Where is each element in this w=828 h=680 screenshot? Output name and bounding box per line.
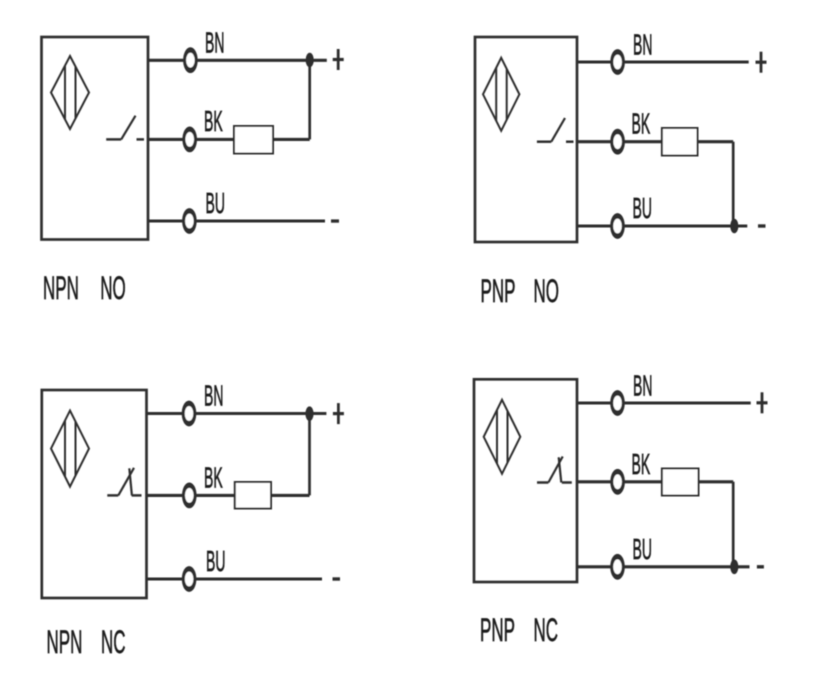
svg-text:BK: BK (204, 104, 223, 137)
resistor Q4 (662, 469, 699, 496)
sensor box Q3 (42, 390, 147, 598)
NO switch contact Q1 (106, 116, 144, 140)
terminal circle BN Q3 (182, 401, 197, 427)
plus terminal Q4 (757, 392, 768, 413)
junction dot BU Q2 (730, 219, 738, 234)
wire BU Q2 (577, 224, 747, 227)
plus terminal Q2 (756, 52, 767, 73)
NC switch contact Q4 (537, 457, 572, 483)
junction dot Q3 (305, 406, 313, 421)
sensor box Q2 (475, 37, 577, 242)
terminal circle BU Q3 (182, 566, 197, 592)
wire BK Q3 (147, 494, 310, 497)
sensor diamond symbol Q1 (51, 56, 89, 129)
svg-text:NC: NC (101, 623, 126, 661)
terminal circle BK Q1 (182, 126, 197, 152)
resistor Q1 (234, 126, 273, 154)
vertical wire resistor to BU Q4 (732, 482, 735, 567)
sensor diamond symbol Q3 (51, 411, 89, 487)
terminal circle BN Q4 (610, 390, 625, 416)
svg-text:NO: NO (534, 272, 559, 310)
sensor diamond symbol Q4 (484, 400, 521, 474)
terminal circle BU Q2 (610, 213, 625, 239)
sensor box Q4 (474, 379, 577, 582)
plus terminal Q3 (333, 403, 344, 424)
caption NPN NO (43, 269, 126, 307)
vertical wire BN to resistor Q3 (308, 414, 311, 496)
terminal circle BU Q4 (610, 554, 625, 580)
minus terminal Q3 (333, 577, 341, 580)
caption NPN NC (47, 623, 126, 661)
wire BU Q1 (148, 219, 325, 222)
wire BN Q4 (577, 401, 751, 404)
svg-text:NPN: NPN (47, 623, 83, 661)
terminal circle BK Q4 (610, 469, 625, 495)
terminal circle BU Q1 (182, 208, 197, 234)
svg-text:BK: BK (632, 447, 651, 480)
wire BN Q2 (577, 60, 749, 63)
svg-text:BU: BU (206, 544, 225, 577)
caption PNP NC (480, 611, 558, 649)
svg-text:BK: BK (204, 461, 223, 494)
svg-text:BK: BK (632, 107, 651, 140)
vertical wire BN to resistor Q1 (308, 60, 311, 139)
vertical wire resistor to BU Q2 (732, 142, 735, 226)
minus terminal Q4 (757, 565, 764, 568)
resistor Q3 (235, 482, 271, 509)
resistor Q2 (662, 128, 698, 156)
terminal circle BK Q3 (182, 483, 197, 509)
NO switch contact Q2 (537, 118, 574, 142)
svg-text:BU: BU (633, 191, 652, 224)
wire BN Q1 (148, 59, 327, 62)
wire BU Q3 (147, 577, 323, 580)
terminal circle BN Q1 (183, 47, 198, 73)
terminal circle BK Q2 (610, 129, 625, 155)
minus terminal Q2 (758, 224, 766, 227)
svg-text:PNP: PNP (481, 272, 516, 310)
junction dot BU Q4 (730, 560, 738, 575)
svg-text:PNP: PNP (480, 611, 515, 649)
NC switch contact Q3 (107, 468, 141, 496)
wire BU Q4 (577, 565, 750, 568)
svg-text:BN: BN (205, 26, 224, 59)
svg-text:BN: BN (204, 379, 223, 412)
svg-text:BN: BN (633, 28, 652, 61)
sensor box Q1 (42, 37, 149, 240)
junction dot Q1 (306, 53, 314, 68)
svg-text:NPN: NPN (43, 269, 79, 307)
wire BK Q1 (148, 138, 310, 141)
svg-text:BU: BU (206, 186, 225, 219)
caption PNP NO (481, 272, 559, 310)
wire BK Q4 (577, 480, 733, 483)
svg-text:NO: NO (100, 269, 125, 307)
wire BK Q2 (577, 140, 733, 143)
terminal circle BN Q2 (610, 49, 625, 75)
wire BN Q3 (147, 412, 327, 415)
plus terminal Q1 (333, 49, 344, 70)
svg-text:NC: NC (534, 611, 559, 649)
minus terminal Q1 (331, 219, 339, 222)
sensor diamond symbol Q2 (483, 58, 519, 131)
svg-text:BN: BN (633, 369, 652, 402)
svg-text:BU: BU (633, 532, 652, 565)
